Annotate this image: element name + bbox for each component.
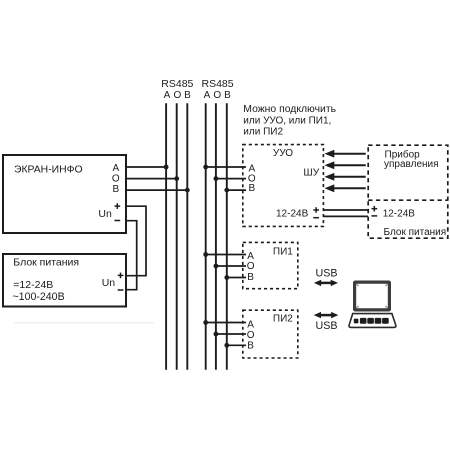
svg-text:А: А (164, 90, 171, 101)
svg-text:В: В (224, 90, 231, 101)
svg-text:Можно подключить: Можно подключить (243, 104, 336, 115)
svg-text:USB: USB (316, 320, 338, 332)
svg-text:12-24В: 12-24В (276, 209, 309, 220)
svg-text:ПИ2: ПИ2 (273, 313, 293, 324)
svg-text:12-24В: 12-24В (383, 209, 416, 220)
svg-text:А: А (247, 251, 254, 262)
svg-text:или ПИ2: или ПИ2 (243, 126, 283, 137)
svg-text:управления: управления (384, 159, 439, 170)
svg-text:RS485: RS485 (161, 78, 193, 90)
svg-text:=12-24В: =12-24В (13, 279, 53, 291)
svg-text:ЭКРАН-ИНФО: ЭКРАН-ИНФО (14, 164, 83, 175)
svg-text:А: А (247, 319, 254, 330)
svg-text:В: В (248, 183, 255, 194)
svg-text:USB: USB (316, 267, 338, 279)
svg-text:Un: Un (98, 208, 112, 220)
svg-text:А: А (204, 90, 211, 101)
svg-text:О: О (112, 173, 120, 184)
svg-text:А: А (112, 163, 119, 174)
svg-text:В: В (184, 90, 191, 101)
svg-text:О: О (247, 261, 255, 272)
svg-text:ПИ1: ПИ1 (273, 246, 293, 257)
svg-text:В: В (112, 184, 119, 195)
svg-text:Блок питания: Блок питания (384, 227, 447, 238)
svg-text:RS485: RS485 (202, 78, 234, 90)
svg-text:Un: Un (102, 277, 116, 289)
svg-text:или УУО, или ПИ1,: или УУО, или ПИ1, (243, 115, 331, 126)
svg-text:В: В (247, 272, 254, 283)
svg-text:~100-240В: ~100-240В (13, 291, 65, 303)
svg-text:О: О (247, 330, 255, 341)
svg-text:Блок питания: Блок питания (13, 257, 79, 269)
svg-text:В: В (247, 340, 254, 351)
svg-text:УУО: УУО (273, 148, 293, 159)
svg-text:О: О (213, 90, 221, 101)
svg-text:ШУ: ШУ (303, 167, 319, 178)
svg-text:О: О (174, 90, 182, 101)
